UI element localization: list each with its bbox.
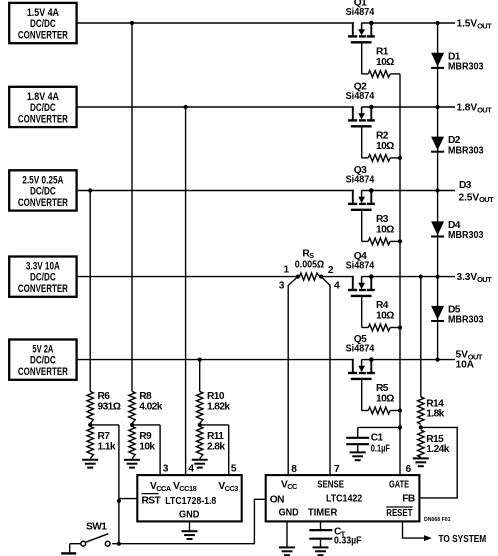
svg-text:4: 4 — [188, 464, 194, 475]
svg-text:RESET: RESET — [386, 508, 413, 519]
svg-text:TO SYSTEM: TO SYSTEM — [439, 534, 487, 545]
svg-text:10Ω: 10Ω — [376, 311, 394, 322]
svg-text:2.5VOUT: 2.5VOUT — [459, 192, 495, 204]
svg-text:4: 4 — [334, 281, 340, 292]
svg-text:10A: 10A — [456, 360, 475, 371]
svg-text:MBR303: MBR303 — [448, 315, 484, 326]
svg-text:DC/DC: DC/DC — [30, 186, 56, 198]
svg-text:MBR303: MBR303 — [448, 145, 484, 156]
svg-text:VCC: VCC — [281, 479, 298, 491]
svg-text:ON: ON — [270, 495, 284, 506]
svg-text:6: 6 — [406, 464, 412, 475]
svg-text:Si4874: Si4874 — [346, 91, 375, 102]
svg-text:DC/DC: DC/DC — [30, 272, 56, 284]
svg-text:2.8k: 2.8k — [207, 441, 225, 452]
svg-text:GATE: GATE — [389, 479, 409, 490]
svg-text:C1: C1 — [371, 432, 384, 443]
svg-text:R6: R6 — [98, 391, 111, 402]
svg-text:0.005Ω: 0.005Ω — [295, 259, 324, 270]
svg-text:DN068 F01: DN068 F01 — [424, 517, 451, 523]
svg-text:DC/DC: DC/DC — [30, 102, 56, 114]
svg-text:DC/DC: DC/DC — [30, 18, 56, 30]
svg-text:1.8VOUT: 1.8VOUT — [457, 103, 493, 115]
svg-text:CONVERTER: CONVERTER — [18, 29, 68, 41]
svg-text:R1: R1 — [376, 46, 389, 57]
svg-text:R2: R2 — [376, 130, 389, 141]
svg-text:1.82k: 1.82k — [207, 401, 230, 412]
svg-text:8: 8 — [291, 464, 297, 475]
svg-text:10Ω: 10Ω — [376, 57, 394, 68]
svg-text:10Ω: 10Ω — [376, 224, 394, 235]
svg-text:4.02k: 4.02k — [139, 401, 162, 412]
svg-text:GND: GND — [279, 508, 299, 519]
svg-text:Si4874: Si4874 — [346, 261, 375, 272]
svg-text:R5: R5 — [376, 383, 389, 394]
svg-text:1.24k: 1.24k — [426, 444, 449, 455]
svg-text:3: 3 — [279, 280, 285, 291]
svg-text:Si4874: Si4874 — [346, 7, 375, 18]
svg-text:SW1: SW1 — [86, 522, 107, 533]
svg-text:CONVERTER: CONVERTER — [18, 113, 68, 125]
svg-text:R11: R11 — [207, 431, 224, 442]
svg-text:1.8k: 1.8k — [426, 408, 444, 419]
svg-text:DC/DC: DC/DC — [30, 355, 56, 367]
svg-text:CONVERTER: CONVERTER — [18, 283, 68, 295]
svg-text:10Ω: 10Ω — [376, 141, 394, 152]
svg-text:1.1k: 1.1k — [98, 441, 116, 452]
svg-text:5: 5 — [231, 464, 237, 475]
svg-text:R7: R7 — [98, 431, 111, 442]
svg-text:R4: R4 — [376, 300, 389, 311]
svg-text:SENSE: SENSE — [317, 479, 344, 490]
svg-text:1: 1 — [284, 265, 290, 276]
svg-text:0.1µF: 0.1µF — [371, 443, 390, 454]
svg-text:3: 3 — [163, 464, 169, 475]
svg-text:RST: RST — [142, 496, 162, 507]
svg-text:931Ω: 931Ω — [98, 401, 121, 412]
svg-text:10k: 10k — [139, 441, 155, 452]
svg-text:TIMER: TIMER — [308, 508, 338, 519]
svg-text:MBR303: MBR303 — [448, 62, 484, 73]
svg-text:D3: D3 — [459, 180, 472, 191]
svg-text:3.3VOUT: 3.3VOUT — [457, 272, 493, 284]
svg-text:Si4874: Si4874 — [346, 175, 375, 186]
svg-text:7: 7 — [334, 464, 340, 475]
svg-text:1.5VOUT: 1.5VOUT — [457, 19, 493, 31]
svg-text:VCCA: VCCA — [150, 481, 172, 493]
svg-text:LTC1728-1.8: LTC1728-1.8 — [165, 496, 216, 507]
svg-text:10Ω: 10Ω — [376, 394, 394, 405]
svg-text:0.33µF: 0.33µF — [334, 535, 362, 546]
svg-text:GND: GND — [179, 510, 199, 521]
svg-text:LTC1422: LTC1422 — [326, 494, 362, 505]
svg-text:CONVERTER: CONVERTER — [18, 366, 68, 378]
svg-text:MBR303: MBR303 — [448, 230, 484, 241]
svg-text:VCC18: VCC18 — [173, 481, 196, 493]
svg-text:R3: R3 — [376, 214, 389, 225]
svg-text:VCC3: VCC3 — [218, 481, 238, 493]
svg-text:Si4874: Si4874 — [346, 344, 375, 355]
svg-text:R10: R10 — [207, 391, 225, 402]
svg-text:R9: R9 — [139, 431, 152, 442]
svg-text:CONVERTER: CONVERTER — [18, 197, 68, 209]
svg-text:2: 2 — [328, 265, 334, 276]
svg-text:FB: FB — [402, 494, 415, 505]
svg-text:R8: R8 — [139, 391, 152, 402]
